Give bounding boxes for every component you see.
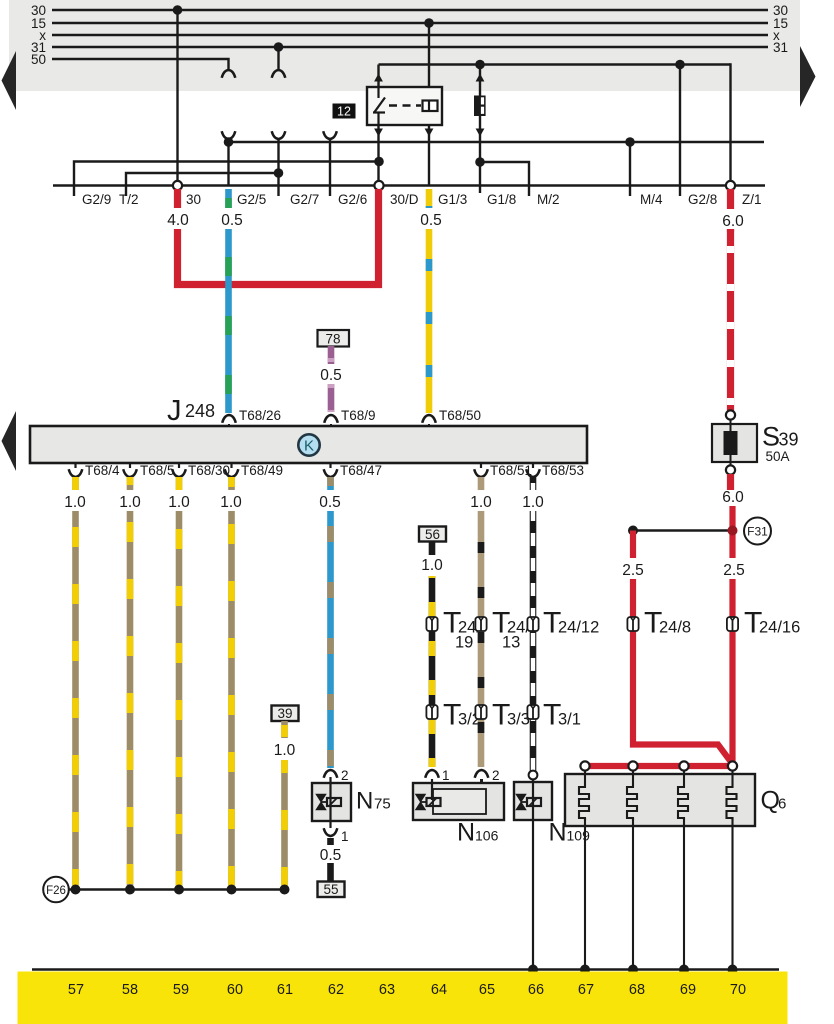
connector fork lower G2/6 <box>323 131 337 139</box>
svg-text:T68/26: T68/26 <box>239 408 281 423</box>
svg-text:1.0: 1.0 <box>64 494 86 511</box>
svg-text:0.5: 0.5 <box>221 212 243 229</box>
wire 65 brown/black <box>478 477 485 767</box>
svg-text:T68/30: T68/30 <box>188 463 230 478</box>
svg-text:S: S <box>762 422 780 452</box>
svg-text:0.5: 0.5 <box>320 847 342 864</box>
svg-text:66: 66 <box>528 982 544 998</box>
svg-text:1.0: 1.0 <box>220 494 242 511</box>
bus labels right <box>773 3 788 55</box>
svg-text:64: 64 <box>431 982 447 998</box>
G2/9 branch line <box>74 162 380 197</box>
svg-text:N: N <box>356 788 373 815</box>
node glow 67 <box>580 761 589 770</box>
connector T24/8 <box>627 607 691 640</box>
node glow 69 <box>679 761 688 770</box>
svg-text:19: 19 <box>455 634 473 652</box>
svg-text:57: 57 <box>68 982 84 998</box>
svg-text:1.0: 1.0 <box>168 494 190 511</box>
wire red to F31 node <box>729 506 735 766</box>
svg-text:106: 106 <box>475 828 499 844</box>
node track 70 <box>728 965 738 975</box>
svg-text:N: N <box>457 819 475 847</box>
gauge label 0.5 purple <box>317 364 344 384</box>
yellow track band <box>18 972 788 1024</box>
svg-text:0.5: 0.5 <box>420 212 442 229</box>
svg-text:24/16: 24/16 <box>759 619 800 637</box>
connector fork lower G2/5 <box>222 131 236 139</box>
svg-text:63: 63 <box>379 982 395 998</box>
label N109 <box>549 819 591 847</box>
svg-text:61: 61 <box>277 982 293 998</box>
glow plug assembly Q6 <box>565 774 755 826</box>
connector T68/4 <box>69 463 120 478</box>
svg-text:1.0: 1.0 <box>421 557 443 574</box>
svg-text:24/8: 24/8 <box>659 619 691 637</box>
G1/8 to M/2 branch line <box>480 162 529 196</box>
svg-text:G1/3: G1/3 <box>438 192 467 207</box>
svg-text:31: 31 <box>773 40 788 55</box>
connector T24/13 <box>475 607 530 652</box>
fuse S39 box <box>712 410 757 474</box>
wire stub from bus 31 <box>277 47 279 69</box>
svg-text:M/4: M/4 <box>640 192 663 207</box>
svg-text:78: 78 <box>325 332 340 347</box>
connector T68/26 <box>222 408 281 426</box>
connector T68/9 <box>324 408 375 426</box>
svg-text:0.5: 0.5 <box>319 494 341 511</box>
wire 61 stub <box>281 721 288 738</box>
wire M/4 vertical <box>629 142 631 196</box>
svg-text:T68/9: T68/9 <box>341 408 376 423</box>
node 60 <box>227 885 237 895</box>
node 30/D to G2/9 <box>374 157 384 167</box>
terminal strip line <box>53 184 765 186</box>
valve N106 <box>413 768 504 820</box>
gauge label 0.5 G2/5 <box>216 208 243 229</box>
bus line 50 with elbow down <box>52 59 229 69</box>
svg-text:1.0: 1.0 <box>522 494 544 511</box>
svg-text:69: 69 <box>680 982 696 998</box>
svg-text:6.0: 6.0 <box>722 489 744 506</box>
svg-text:1: 1 <box>341 829 349 844</box>
label N106 <box>457 819 499 847</box>
svg-text:62: 62 <box>328 982 344 998</box>
connector T24/16 <box>727 607 800 640</box>
wire red 4.0 from 30 to 30/D (elbow) <box>178 189 379 285</box>
wire 58 brown/yellow <box>127 477 134 890</box>
wire from bus 15 through relay coil to terminal G1/3 <box>428 23 430 186</box>
relay switch contact <box>373 88 385 125</box>
connector T68/53 <box>526 463 584 478</box>
valve N75 <box>312 768 351 844</box>
label box 56 <box>419 527 446 543</box>
svg-text:2: 2 <box>492 768 500 783</box>
node 15-bus junction <box>424 18 434 28</box>
connector fork pair upper (bus 31) <box>272 70 286 78</box>
wire 57 brown/yellow <box>72 477 79 890</box>
wire G2/5 vertical <box>227 139 229 186</box>
node 59 <box>174 885 184 895</box>
svg-text:1.0: 1.0 <box>274 742 296 759</box>
svg-text:2: 2 <box>341 768 349 783</box>
wire Z/1 to S39 red/white striped <box>727 228 734 411</box>
down arrow relay pin right <box>425 129 434 137</box>
label N75 <box>356 788 391 815</box>
left arrow top <box>2 51 17 110</box>
terminal Z/1 circle <box>726 181 735 190</box>
svg-text:T68/49: T68/49 <box>241 463 283 478</box>
wire G2/8 vertical <box>679 65 681 197</box>
connector fork lower G2/7 <box>272 131 286 139</box>
svg-text:Z/1: Z/1 <box>742 192 762 207</box>
fuse vertical G1/8 <box>479 65 481 194</box>
svg-text:G2/6: G2/6 <box>338 192 367 207</box>
connector T68/5 <box>123 463 174 478</box>
gauge label 0.5 G1/3 <box>417 208 443 229</box>
svg-text:56: 56 <box>425 527 440 542</box>
svg-text:70: 70 <box>730 982 746 998</box>
gauge label 4.0 <box>165 208 191 229</box>
svg-text:50: 50 <box>31 52 46 67</box>
label box 12 <box>333 104 356 119</box>
svg-text:6.0: 6.0 <box>722 213 744 230</box>
connector T68/51 <box>474 463 532 478</box>
node 31-bus junction <box>274 42 284 52</box>
wire stub below 56 <box>429 542 436 556</box>
svg-text:6: 6 <box>778 796 786 813</box>
K-diagnostic circle <box>298 434 319 455</box>
node track 67 <box>580 965 590 975</box>
connector T3/1 <box>527 699 581 732</box>
wire 61 brown/yellow <box>281 760 288 890</box>
terminal 30 circle <box>173 181 182 190</box>
wire G1/3 yellow/blue striped <box>426 189 433 413</box>
label box 78 <box>318 330 350 347</box>
svg-text:1: 1 <box>442 768 450 783</box>
connector T24/19 <box>426 607 481 652</box>
svg-text:39: 39 <box>779 430 799 450</box>
svg-text:G2/8: G2/8 <box>688 192 717 207</box>
svg-text:G2/7: G2/7 <box>290 192 319 207</box>
svg-text:M/2: M/2 <box>537 192 560 207</box>
node G2/8 tap <box>675 60 685 70</box>
node 58 <box>125 885 135 895</box>
connector fork pair upper (bus 50) <box>222 70 236 78</box>
track numbers <box>68 982 746 998</box>
node G2/5 line start <box>224 137 234 147</box>
label box 55 <box>318 882 345 898</box>
connector T3/2 <box>426 699 481 732</box>
node branch right <box>728 526 738 536</box>
wire from bus 30 to terminal 30 <box>176 10 178 186</box>
svg-text:4.0: 4.0 <box>167 212 189 229</box>
wire G2/5 blue/green striped <box>225 189 232 413</box>
wire 66 black/white <box>530 477 537 771</box>
terminal labels <box>82 192 762 207</box>
svg-text:F26: F26 <box>46 885 66 897</box>
node track 69 <box>679 965 689 975</box>
svg-text:39: 39 <box>277 706 292 721</box>
svg-text:30: 30 <box>186 192 201 207</box>
bus line 30 <box>52 9 768 11</box>
gauge label 2.5 right <box>719 558 747 579</box>
node G2/7 to T/2 <box>274 168 284 178</box>
gauge label 0.5 N75 <box>317 845 344 864</box>
node 61 <box>280 885 290 895</box>
up arrow relay pin <box>374 74 383 82</box>
gauge label 6.0 Z/1 <box>717 209 745 230</box>
node track 66 <box>528 965 538 975</box>
svg-text:30/D: 30/D <box>390 192 419 207</box>
svg-text:12: 12 <box>337 105 351 119</box>
terminal 30/D circle <box>374 181 383 190</box>
svg-text:60: 60 <box>227 982 243 998</box>
svg-text:55: 55 <box>323 882 338 897</box>
svg-text:3/1: 3/1 <box>558 711 581 729</box>
gauge label 2.5 left <box>619 558 647 579</box>
svg-text:2.5: 2.5 <box>723 562 745 579</box>
svg-text:13: 13 <box>502 634 520 652</box>
horizontal feed line y64 <box>379 63 731 65</box>
T/2 branch line <box>126 173 279 196</box>
label box 39 <box>272 706 299 722</box>
relay coil pin through <box>428 100 430 112</box>
node G1/8 branch <box>475 157 485 167</box>
relay actuation dashed link <box>389 104 421 106</box>
wire 60 brown/yellow <box>228 477 235 890</box>
label S39 50A <box>762 422 799 465</box>
node 30-bus junction <box>173 5 183 15</box>
svg-text:F31: F31 <box>747 525 768 539</box>
svg-text:J: J <box>167 395 182 427</box>
wire N109 down <box>532 820 534 969</box>
glow plug 3 <box>678 770 688 969</box>
circle F31 <box>744 518 771 545</box>
red feed bus to glow plugs <box>585 763 733 769</box>
svg-text:24/12: 24/12 <box>558 619 599 637</box>
svg-text:G2/9: G2/9 <box>82 192 111 207</box>
svg-text:248: 248 <box>185 401 215 421</box>
connector T68/50 <box>422 408 481 426</box>
glow plug 4 <box>727 770 737 969</box>
glow plug 1 <box>579 770 589 969</box>
svg-text:65: 65 <box>479 982 495 998</box>
glow plug 2 <box>627 770 637 969</box>
top gray bus band <box>9 0 800 91</box>
relay box <box>367 87 442 125</box>
down arrow relay pin left <box>374 129 383 137</box>
svg-text:50A: 50A <box>766 449 790 464</box>
connector T68/30 <box>172 463 230 478</box>
bus labels left <box>31 3 46 67</box>
svg-text:67: 67 <box>578 982 594 998</box>
relay pin vertical 30/D <box>377 65 379 186</box>
svg-text:T68/4: T68/4 <box>85 463 120 478</box>
circle F26 <box>43 877 69 903</box>
node M/4 tap <box>625 137 635 147</box>
svg-text:1.0: 1.0 <box>470 494 492 511</box>
label Q6 <box>761 787 787 815</box>
svg-text:0.5: 0.5 <box>320 367 342 384</box>
wire G2/6 vertical <box>329 139 331 196</box>
bottom track line <box>32 968 779 971</box>
node glow 70 <box>728 761 737 770</box>
wire 78 purple <box>328 346 335 412</box>
wire 64 black/yellow <box>429 576 436 767</box>
down arrow fuse out <box>476 129 485 137</box>
up arrow fuse <box>476 74 485 82</box>
svg-text:3/3: 3/3 <box>507 711 530 729</box>
svg-text:58: 58 <box>122 982 138 998</box>
svg-text:68: 68 <box>629 982 645 998</box>
svg-text:109: 109 <box>567 828 591 844</box>
svg-text:T/2: T/2 <box>119 192 139 207</box>
svg-text:T68/47: T68/47 <box>340 463 382 478</box>
wire Z/1 vertical <box>729 63 731 185</box>
ground collector line F26 <box>69 888 285 891</box>
wire 62 blue/brown <box>327 477 334 768</box>
svg-text:T68/50: T68/50 <box>439 408 481 423</box>
wire red 2.5 left <box>633 531 733 765</box>
node 57 <box>71 885 81 895</box>
left arrow mid <box>2 411 17 471</box>
wire G2/7 vertical <box>277 139 279 196</box>
right arrow <box>800 46 816 107</box>
fuse symbol top <box>474 96 486 117</box>
node glow 68 <box>628 761 637 770</box>
gauge labels 1.0 row <box>61 490 89 511</box>
horizontal line y142 <box>229 141 765 143</box>
connector T3/3 <box>475 699 530 732</box>
bus line 15 <box>52 22 768 24</box>
branch line F31 <box>633 529 733 532</box>
connector T68/47 <box>324 463 382 478</box>
node track 68 <box>628 965 638 975</box>
svg-text:T68/53: T68/53 <box>542 463 584 478</box>
node fuse tap <box>475 60 485 70</box>
bus line 31 <box>52 46 768 48</box>
svg-text:K: K <box>304 438 314 455</box>
relay coil box <box>423 101 438 112</box>
svg-text:T68/5: T68/5 <box>140 463 175 478</box>
svg-text:75: 75 <box>374 796 391 813</box>
J248 control module box <box>30 426 587 463</box>
connector T68/49 <box>225 463 283 478</box>
wire S39 out red <box>727 474 734 490</box>
svg-text:G2/5: G2/5 <box>237 192 266 207</box>
svg-text:2.5: 2.5 <box>622 562 644 579</box>
wire N75 ground black <box>327 838 334 881</box>
node branch left <box>628 526 638 536</box>
svg-text:G1/8: G1/8 <box>487 192 516 207</box>
wire Z/1 red 6.0 <box>727 189 734 232</box>
svg-text:59: 59 <box>173 982 189 998</box>
svg-text:1.0: 1.0 <box>119 494 141 511</box>
valve N109 <box>514 771 552 820</box>
connector T24/12 <box>527 607 599 640</box>
bus line x <box>52 34 768 36</box>
wire 59 brown/yellow <box>176 477 183 890</box>
